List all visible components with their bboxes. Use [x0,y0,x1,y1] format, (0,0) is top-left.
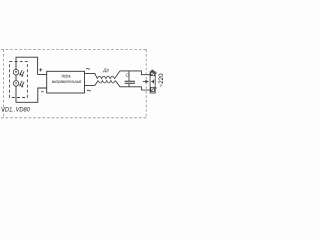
connector socket arrow [151,80,154,83]
connector top tab [151,70,153,72]
wire choke to connector top [115,71,151,79]
AC mark bottom [87,89,91,92]
wire LED chain top to module plus [16,57,47,74]
rectifier module box [47,71,85,93]
wire module to choke top [85,73,98,78]
LED VD2 arrows [20,81,24,87]
connector middle contact wire [143,81,146,83]
LED group dashed box [10,62,28,98]
LED VD1 arrows [20,70,24,76]
LED VD1 [13,69,19,75]
svg-text:VD1..VD80: VD1..VD80 [1,107,31,113]
wire LED chain bottom to module minus [16,86,47,102]
choke bottom winding [98,81,115,84]
connector contact bottom [151,87,155,91]
connector pin stub top [155,72,157,74]
enclosure dashed frame left [2,49,4,117]
wire between LEDs [15,75,17,81]
AC mark top [86,67,90,70]
wire choke to connector bottom [115,81,150,91]
LED VD2 [13,81,19,87]
wire module to choke bottom [85,81,99,86]
svg-text:выпрямительный: выпрямительный [52,78,82,84]
enclosure dashed frame right [145,49,147,117]
svg-text:~220: ~220 [158,73,165,87]
choke top winding [97,76,114,78]
connector contact top [151,72,155,75]
label + [39,68,42,71]
svg-text:Модуль: Модуль [61,74,71,79]
enclosure dashed frame top [1,48,146,50]
capacitor C [128,71,130,81]
connector body [150,72,155,93]
connector pin stub bottom [155,87,157,89]
enclosure dashed frame bottom [1,117,146,119]
connector plug arrow [145,80,149,83]
label - [41,91,43,93]
svg-text:Др: Др [102,68,109,73]
